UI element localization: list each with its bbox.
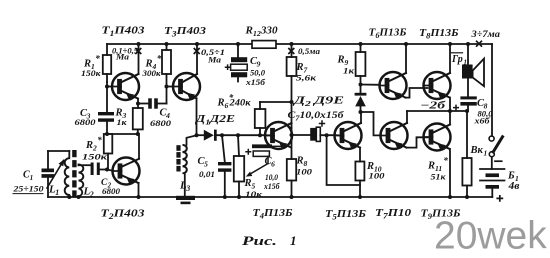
resistor R11 xyxy=(466,111,468,158)
node R9 bottom T6 base xyxy=(359,83,363,87)
resistor R2 xyxy=(104,134,113,154)
wire drive node to T7 base xyxy=(361,112,381,135)
wire T4 collector column xyxy=(291,128,293,159)
wire T6 collector to rail xyxy=(405,44,407,73)
wire right rail down to switch xyxy=(491,44,493,135)
svg-text:х15б: х15б xyxy=(245,77,266,87)
resistor R1 xyxy=(106,44,108,55)
svg-text:6800: 6800 xyxy=(75,117,97,127)
svg-text:5,6к: 5,6к xyxy=(296,73,317,83)
transistor T3 xyxy=(173,73,200,100)
svg-text:*: * xyxy=(443,155,448,165)
coil L1 xyxy=(68,151,70,158)
wire R9 to T6 base xyxy=(361,84,380,86)
svg-text:Т5П13Б: Т5П13Б xyxy=(325,208,366,221)
transistor T2 xyxy=(113,158,140,185)
svg-text:1: 1 xyxy=(463,58,467,66)
capacitor C9 electrolytic xyxy=(237,44,239,57)
core of L3 xyxy=(176,145,180,151)
svg-text:R: R xyxy=(337,55,345,66)
resistor R7 with meter break xyxy=(291,44,293,57)
svg-text:300к: 300к xyxy=(141,68,161,78)
capacitor C1 variable xyxy=(47,151,49,169)
wire T2 emitter to bottom rail xyxy=(138,183,140,197)
svg-text:25÷150: 25÷150 xyxy=(12,184,44,194)
wire T3 emitter down to detector line xyxy=(196,98,198,135)
resistor R5 trimmer xyxy=(236,133,240,137)
node junction dots on top rail xyxy=(137,42,141,46)
svg-text:R: R xyxy=(296,62,304,73)
wire T5 collector up xyxy=(360,112,362,123)
svg-text:150к: 150к xyxy=(82,152,108,162)
wire T9 emitter to bottom rail xyxy=(449,149,451,197)
wire bottom rail xyxy=(48,196,492,198)
label battery minus xyxy=(495,160,502,162)
svg-text:Т7П10: Т7П10 xyxy=(375,207,412,220)
svg-text:0,5ма: 0,5ма xyxy=(298,47,320,56)
svg-text:Рис.: Рис. xyxy=(242,233,277,248)
wire T7 collector to output node xyxy=(406,111,408,123)
svg-text:6800: 6800 xyxy=(150,118,172,128)
svg-text:50,0: 50,0 xyxy=(250,68,266,78)
meter break 0.1-0.5mA xyxy=(135,48,141,54)
svg-text:3: 3 xyxy=(185,184,190,193)
node T1 emitter junction xyxy=(136,102,140,106)
svg-text:С710,0х15б: С710,0х15б xyxy=(288,110,346,122)
capacitor C8 electrolytic xyxy=(460,96,476,99)
wire T3 collector to rail with meter break xyxy=(196,44,198,74)
label battery plus xyxy=(496,195,503,202)
svg-text:R12330: R12330 xyxy=(244,26,278,38)
transistor T8 xyxy=(424,72,451,99)
core of L1 L2 xyxy=(72,150,76,157)
wire tank top xyxy=(48,150,69,152)
wire T2 collector up xyxy=(138,134,140,159)
svg-text:Вк: Вк xyxy=(470,145,484,156)
svg-text:6: 6 xyxy=(271,159,275,168)
speaker Gr1 xyxy=(467,44,469,65)
wire T5 emitter to R10 xyxy=(359,148,361,162)
svg-text:1к: 1к xyxy=(117,117,128,127)
diode D1 xyxy=(204,130,214,141)
switch Vk1 xyxy=(489,136,494,141)
svg-text:5: 5 xyxy=(204,159,208,168)
svg-text:1: 1 xyxy=(484,148,488,157)
svg-text:100: 100 xyxy=(296,167,313,177)
svg-text:Т3П403: Т3П403 xyxy=(164,25,207,38)
meter break 3-7mA on rail xyxy=(476,41,482,47)
resistor R12 on rail xyxy=(252,41,276,49)
wire detector line xyxy=(197,134,204,136)
svg-text:R: R xyxy=(427,161,435,172)
resistor R3 xyxy=(133,108,143,129)
transistor T9 xyxy=(424,124,451,151)
svg-text:4в: 4в xyxy=(507,181,520,192)
svg-text:1: 1 xyxy=(55,188,59,197)
svg-text:*: * xyxy=(95,53,100,63)
svg-text:R: R xyxy=(296,156,304,167)
battery B1 xyxy=(480,168,505,170)
resistor R8 xyxy=(287,159,296,181)
svg-text:1к: 1к xyxy=(343,66,355,76)
svg-text:Т8П13Б: Т8П13Б xyxy=(419,27,459,40)
svg-text:R: R xyxy=(244,178,252,189)
capacitor C6 electrolytic xyxy=(252,144,272,148)
svg-text:2: 2 xyxy=(89,190,94,199)
svg-text:240к: 240к xyxy=(228,98,251,108)
transistor T5 xyxy=(335,122,362,149)
wire L2 to C2 xyxy=(78,164,80,167)
svg-text:Т6П13Б: Т6П13Б xyxy=(369,27,407,40)
resistor R4 xyxy=(166,44,168,50)
svg-text:*: * xyxy=(97,135,102,145)
wire T8 collector to rail xyxy=(449,44,451,73)
svg-text:Ма: Ма xyxy=(115,53,129,62)
transistor T6 xyxy=(380,72,407,99)
coil L3 xyxy=(187,135,197,145)
coil L2 xyxy=(79,165,84,197)
svg-text:100: 100 xyxy=(369,171,386,181)
wire top supply rail xyxy=(107,43,492,45)
svg-text:R: R xyxy=(217,98,225,109)
wire base column down to C3 xyxy=(106,82,108,112)
svg-text:150к: 150к xyxy=(81,68,101,78)
wire C6 to T4 emitter xyxy=(272,145,283,147)
svg-text:х15б: х15б xyxy=(263,181,280,191)
node T1 base junction xyxy=(105,85,109,89)
transistor T1 xyxy=(112,73,139,100)
transistor T7 xyxy=(381,122,408,149)
wire T5 base bias down to R10 bottom xyxy=(327,135,360,185)
svg-text:*: * xyxy=(157,53,162,63)
svg-text:Т1П403: Т1П403 xyxy=(102,25,146,38)
capacitor C3 xyxy=(98,112,114,115)
wire T1 collector to rail with meter break xyxy=(138,44,140,74)
wire T8 emitter to output node xyxy=(449,98,451,111)
svg-text:Т4П13Б: Т4П13Б xyxy=(253,207,293,220)
svg-text:1: 1 xyxy=(290,233,297,248)
wiper arrow C6 to R5 xyxy=(249,164,269,176)
resistor R9 xyxy=(360,44,362,52)
svg-text:Т2П403: Т2П403 xyxy=(101,208,146,221)
svg-text:51к: 51к xyxy=(431,172,447,182)
svg-text:1: 1 xyxy=(30,174,34,182)
svg-text:х6б: х6б xyxy=(473,116,490,126)
wire bias feedback R2top-R3bottom xyxy=(107,133,138,135)
wire T7 emitter to T9 base xyxy=(407,137,428,147)
wire R6 top to R7 bottom xyxy=(260,101,292,103)
svg-text:Б: Б xyxy=(507,171,515,182)
svg-text:Гр: Гр xyxy=(451,54,463,65)
meter break 0.5-1mA xyxy=(194,48,200,54)
capacitor C5 xyxy=(220,133,224,137)
capacitor C4 xyxy=(138,103,148,105)
svg-text:Д1Д2Е: Д1Д2Е xyxy=(195,114,235,126)
svg-text:Д2 Д9Е: Д2 Д9Е xyxy=(292,96,344,108)
svg-text:0,01: 0,01 xyxy=(199,169,215,179)
wire T6 emitter to T8 base xyxy=(406,88,428,98)
node junction dots on bottom rail xyxy=(67,195,71,199)
ground chassis under L3 xyxy=(176,196,195,200)
svg-text:Ма: Ма xyxy=(207,56,221,65)
resistor R10 xyxy=(355,162,364,181)
wire output node xyxy=(407,110,467,112)
node T5 collector D2 junction xyxy=(359,110,363,114)
diode D2 xyxy=(355,93,367,96)
resistor R6 xyxy=(259,102,261,109)
svg-text:6800: 6800 xyxy=(102,187,120,196)
svg-text:3÷7ма: 3÷7ма xyxy=(470,29,500,39)
svg-text:R: R xyxy=(85,140,93,151)
capacitor C2 xyxy=(91,163,94,176)
transistor T4 xyxy=(265,122,292,149)
svg-text:−2б: −2б xyxy=(420,101,446,112)
wire T9 collector to output node xyxy=(449,111,451,125)
node T2 base junction xyxy=(105,168,109,172)
capacitor C7 electrolytic xyxy=(292,134,311,136)
svg-text:10к: 10к xyxy=(245,189,263,199)
svg-text:20wek: 20wek xyxy=(434,215,547,258)
